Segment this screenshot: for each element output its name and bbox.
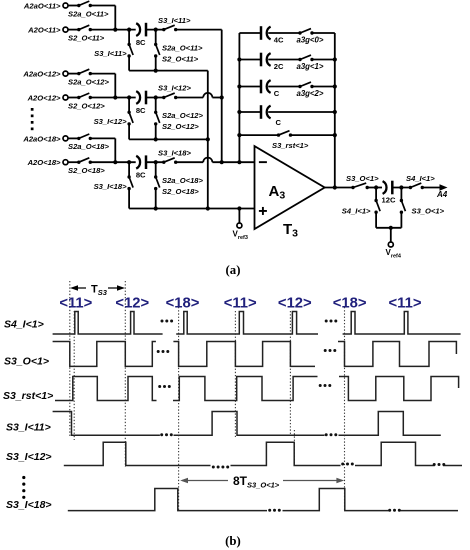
svg-text:S3_I<18>: S3_I<18> xyxy=(158,148,192,157)
svg-text:A2O<12>: A2O<12> xyxy=(27,94,61,103)
svg-text:S4_I<1>: S4_I<1> xyxy=(406,174,435,183)
svg-text:S3_I<12>: S3_I<12> xyxy=(6,451,52,463)
svg-text:S2_O<11>: S2_O<11> xyxy=(162,54,199,63)
svg-text:(b): (b) xyxy=(225,534,241,548)
svg-text:A2aO<12>: A2aO<12> xyxy=(22,70,61,79)
svg-text:C: C xyxy=(274,89,280,98)
svg-text:S3_O<1>: S3_O<1> xyxy=(346,174,379,183)
svg-text:S2_O<12>: S2_O<12> xyxy=(162,122,199,131)
svg-text:S3_I<12>: S3_I<12> xyxy=(94,117,128,126)
svg-text:S2a_O<11>: S2a_O<11> xyxy=(162,43,203,52)
svg-text:<11>: <11> xyxy=(224,295,257,311)
svg-text:12C: 12C xyxy=(382,196,396,205)
svg-text:8C: 8C xyxy=(136,171,146,180)
svg-text:S4_I<1>: S4_I<1> xyxy=(342,206,371,215)
svg-text:S2a_O<18>: S2a_O<18> xyxy=(162,176,204,185)
svg-text:<18>: <18> xyxy=(333,295,367,311)
svg-text:S3_I<11>: S3_I<11> xyxy=(94,49,127,58)
svg-text:S2_O<12>: S2_O<12> xyxy=(68,101,105,110)
svg-text:S3_rst<1>: S3_rst<1> xyxy=(272,141,309,150)
svg-text:a3g<2>: a3g<2> xyxy=(297,89,324,98)
svg-text:<11>: <11> xyxy=(389,295,422,311)
svg-text:8C: 8C xyxy=(136,106,146,115)
svg-text:<18>: <18> xyxy=(166,295,200,311)
svg-text:S3_I<12>: S3_I<12> xyxy=(158,84,192,93)
svg-text:(a): (a) xyxy=(226,263,241,277)
svg-text:A2O<18>: A2O<18> xyxy=(27,158,61,167)
svg-text:C: C xyxy=(276,118,282,127)
svg-text:S3_I<18>: S3_I<18> xyxy=(94,182,128,191)
svg-text:S2a_O<18>: S2a_O<18> xyxy=(68,142,110,151)
svg-text:<12>: <12> xyxy=(115,295,149,311)
svg-text:S2a_O<12>: S2a_O<12> xyxy=(68,77,110,86)
svg-text:A4: A4 xyxy=(436,190,448,199)
svg-text:a3g<1>: a3g<1> xyxy=(297,62,324,71)
svg-text:4C: 4C xyxy=(274,36,284,45)
svg-text:A2O<11>: A2O<11> xyxy=(27,26,61,35)
svg-text:S2a_O<12>: S2a_O<12> xyxy=(162,111,204,120)
svg-text:S4_I<1>: S4_I<1> xyxy=(4,319,44,331)
svg-text:2C: 2C xyxy=(274,62,284,71)
svg-text:S2_O<11>: S2_O<11> xyxy=(68,33,105,42)
svg-text:S2_O<18>: S2_O<18> xyxy=(68,166,105,175)
svg-text:S3_rst<1>: S3_rst<1> xyxy=(3,390,53,402)
svg-text:A2aO<18>: A2aO<18> xyxy=(22,134,61,143)
svg-text:S3_O<1>: S3_O<1> xyxy=(412,206,445,215)
svg-text:<11>: <11> xyxy=(59,295,92,311)
svg-text:S3_I<11>: S3_I<11> xyxy=(6,421,51,433)
svg-text:<12>: <12> xyxy=(278,295,312,311)
svg-text:S2a_O<11>: S2a_O<11> xyxy=(68,9,109,18)
svg-text:S3_O<1>: S3_O<1> xyxy=(4,355,49,367)
svg-text:a3g<0>: a3g<0> xyxy=(297,35,324,44)
svg-text:S2_O<18>: S2_O<18> xyxy=(162,187,199,196)
svg-text:S3_I<11>: S3_I<11> xyxy=(158,16,191,25)
svg-text:A2aO<11>: A2aO<11> xyxy=(23,2,61,11)
svg-text:8C: 8C xyxy=(136,38,146,47)
svg-text:S3_I<18>: S3_I<18> xyxy=(6,499,52,511)
